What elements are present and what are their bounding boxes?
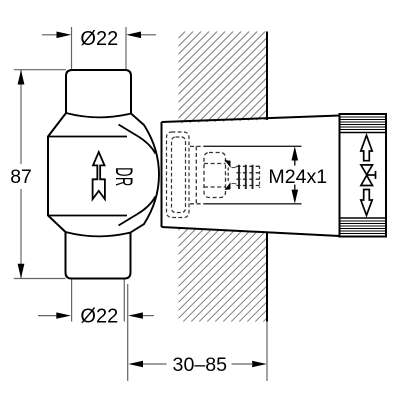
- top supply pipe left wall / extension line: [71, 27, 73, 70]
- cap down arrow: [361, 190, 372, 216]
- dim 30-85 dimension line left segment: [143, 363, 167, 365]
- hidden cartridge body (inner, dashed): [172, 137, 186, 213]
- sleeve bottom outline / M24 lower extension line: [204, 203, 302, 205]
- rough-in cone top edge: [162, 116, 340, 123]
- cap valve symbol stem: [367, 174, 376, 176]
- dim 87 down arrowhead: [18, 264, 25, 279]
- rough-in cone left end: [161, 122, 163, 227]
- dim Ø22 top left leader line: [42, 34, 57, 36]
- top supply pipe right wall / extension line: [125, 27, 127, 70]
- valve top collar outline: [66, 70, 131, 114]
- thread run-out curve top: [232, 166, 237, 169]
- spindle thread rows (dashed): [237, 166, 262, 185]
- svg-text:Ø22: Ø22: [80, 28, 118, 50]
- dim Ø22 bottom right leader line: [143, 315, 154, 317]
- svg-text:30–85: 30–85: [173, 354, 228, 376]
- cap up arrow: [361, 135, 372, 160]
- cap valve symbol stem tick: [375, 171, 377, 179]
- dim 87 up arrowhead: [18, 70, 25, 85]
- top knurl band lower border: [340, 132, 387, 134]
- inner edge top: [119, 125, 156, 154]
- dim 87 bottom extension line: [14, 278, 66, 280]
- dim 30-85 left arrowhead: [128, 361, 143, 367]
- bottom supply pipe left wall: [71, 279, 73, 322]
- dim 87 dimension line upper segment: [20, 70, 22, 164]
- hidden step bottom connector (dashed): [190, 203, 204, 205]
- cap valve symbol upper triangle: [361, 165, 373, 175]
- dim M24x1 upper shaft: [294, 161, 296, 166]
- rough-in cone bottom edge: [162, 227, 340, 236]
- hidden cap lower edge line (dashed): [204, 186, 226, 188]
- protection cap: [340, 114, 387, 237]
- dim M24x1 down arrowhead: [292, 190, 299, 204]
- valve body right silhouette (spherical bulge): [131, 114, 160, 233]
- spindle thread crests (vertical bars): [239, 165, 253, 189]
- spindle thread end edge: [259, 166, 261, 188]
- svg-text:M24x1: M24x1: [268, 166, 327, 188]
- dim M24x1 lower shaft: [294, 185, 296, 190]
- hidden cap upper edge line (dashed): [204, 163, 226, 165]
- valve top collar bottom edge arc: [66, 113, 131, 117]
- dim Ø22 top right leader line: [141, 34, 156, 36]
- valve body front face bottom edge: [48, 215, 127, 217]
- bottom supply pipe right wall: [123, 279, 125, 322]
- dim Ø22 top left arrowhead: [57, 32, 72, 39]
- inner edge bottom: [119, 197, 156, 226]
- dim 30-85 dimension line right segment: [232, 363, 253, 365]
- dim Ø22 bottom left arrowhead: [56, 312, 71, 318]
- bottom knurl band: [340, 221, 387, 234]
- hidden cartridge body (outer, dashed): [167, 132, 190, 218]
- dim 30-85 right arrowhead: [252, 361, 267, 367]
- valve bottom collar top edge arc: [66, 232, 131, 236]
- hidden step top connector (dashed): [190, 145, 204, 147]
- dim Ø22 bottom left leader line: [38, 315, 57, 317]
- cap valve symbol lower triangle: [361, 175, 373, 185]
- thread relief wedge bottom: [225, 182, 231, 190]
- valve bottom collar outline: [66, 232, 131, 279]
- svg-text:DR: DR: [110, 167, 138, 186]
- dim 87 dimension line lower segment: [20, 189, 22, 279]
- top knurl band: [340, 117, 387, 130]
- dim Ø22 bottom right arrowhead: [128, 312, 143, 318]
- valve body front face top edge: [48, 136, 127, 138]
- flow direction arrow: [93, 152, 105, 199]
- dim Ø22 top right arrowhead: [126, 32, 141, 39]
- dim 30-85 right extension line (wall face): [266, 322, 268, 382]
- wall hatching upper: [179, 32, 268, 124]
- sleeve top outline / M24 upper extension line: [204, 145, 302, 147]
- shared extension line (dim Ø22 bottom right / dim 30-85 left): [127, 284, 129, 381]
- thread run-out curve bottom: [232, 182, 237, 185]
- wall hatching lower: [179, 228, 268, 322]
- valve body left silhouette (shoulders + left edge): [48, 113, 66, 232]
- wall front face lower edge: [266, 232, 268, 322]
- bottom knurl band upper border: [340, 217, 387, 219]
- svg-text:87: 87: [10, 166, 32, 188]
- dim M24x1 up arrowhead: [292, 146, 299, 160]
- thread relief wedge top: [225, 160, 231, 168]
- wall front face upper edge: [266, 32, 268, 120]
- hidden cartridge cap (dashed): [204, 153, 226, 198]
- svg-text:Ø22: Ø22: [80, 306, 118, 328]
- hidden step vertical (dashed): [195, 146, 197, 203]
- hidden spindle core line (dashed): [227, 168, 229, 184]
- dim 87 top extension line: [14, 69, 66, 71]
